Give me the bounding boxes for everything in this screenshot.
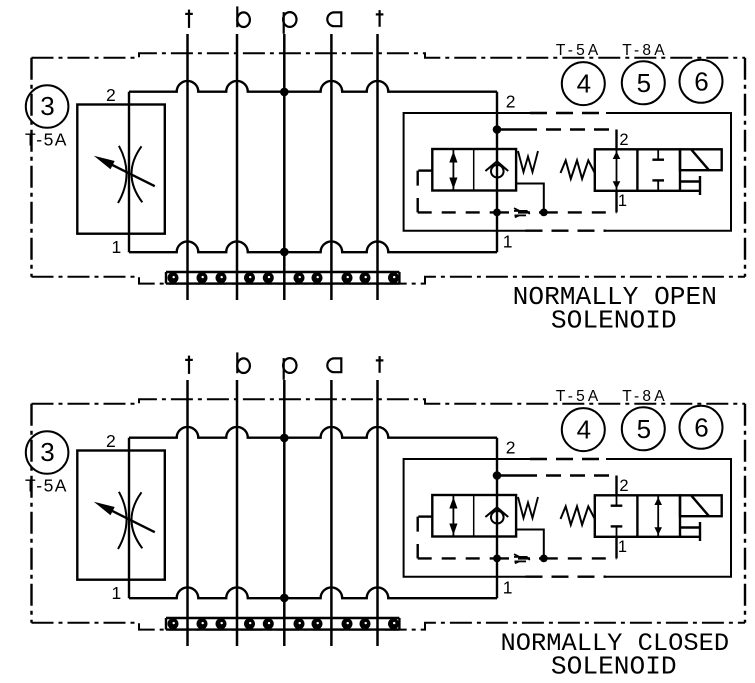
node: pilot junction lower — [493, 209, 501, 217]
cartridge assembly outline dashed bottom link — [526, 229, 607, 231]
manifold boundary chain border right edge — [744, 58, 746, 277]
bolt 8 — [342, 618, 353, 629]
flow control restriction arc left — [118, 492, 127, 549]
node: p port bottom junction — [280, 248, 289, 257]
check valve cartridge body — [432, 149, 516, 191]
balloon callout 3 — [26, 85, 69, 128]
bolt band top line — [166, 617, 399, 619]
flow control adjustment arrow — [109, 509, 155, 532]
bolt 1 — [168, 618, 179, 629]
wire: check valve drain connector — [516, 184, 544, 213]
svg-text:1: 1 — [112, 237, 122, 257]
wire: port line p3 — [283, 380, 286, 646]
wire: solenoid valve port 1 line — [615, 537, 617, 559]
wire: port line a4 — [330, 34, 333, 300]
node: p port bottom junction — [280, 594, 289, 603]
manifold body top edge with port notches — [129, 427, 497, 438]
port label t (second) — [376, 10, 384, 27]
svg-text:2: 2 — [619, 477, 628, 495]
bolt 3 — [216, 618, 227, 629]
solenoid connector stub — [680, 180, 700, 182]
check valve seat chevron — [485, 507, 508, 517]
wire: bottom pilot dashed middle section — [497, 557, 544, 559]
port label t (first) — [185, 10, 193, 28]
bolt 6 — [294, 618, 305, 629]
port label p — [283, 12, 296, 34]
bolt 2 — [197, 272, 208, 283]
wire: port line a4 — [330, 380, 333, 646]
bolt 1 — [168, 272, 179, 283]
solenoid valve cell divider — [636, 495, 638, 537]
bolt 10 — [388, 272, 399, 283]
bottom diagram: normally closed solenoid circuit — [25, 352, 745, 681]
solenoid valve cell divider — [636, 149, 638, 191]
flow control restriction arc right — [131, 492, 142, 548]
manifold boundary chain border top edge — [32, 53, 746, 58]
wire: port line p3 — [283, 34, 286, 300]
check valve free-flow arrow — [449, 149, 457, 191]
node: pilot junction lower — [493, 555, 501, 563]
manifold boundary chain border bottom edge — [32, 277, 746, 284]
manifold body bottom edge with port notches — [129, 587, 497, 598]
svg-text:4: 4 — [577, 69, 591, 99]
balloon callout 5 — [622, 61, 665, 104]
solenoid connector stub — [680, 526, 700, 528]
cartridge assembly outline left solid section — [404, 459, 530, 577]
solenoid valve open position arrows (left cell) — [613, 149, 621, 191]
svg-text:6: 6 — [694, 412, 708, 442]
svg-text:4: 4 — [577, 415, 591, 445]
wire: bottom pilot dashed left section — [418, 211, 497, 213]
wire: check valve drain connector — [516, 530, 544, 559]
wire: bottom pilot dashed middle section — [497, 211, 544, 213]
wire: bottom pilot dashed left section — [418, 557, 497, 559]
bolt 7 — [312, 272, 323, 283]
cartridge assembly outline right solid section — [606, 459, 731, 577]
bolt band right cap — [398, 618, 400, 630]
balloon callout 6 — [680, 60, 723, 103]
solenoid valve open position arrows (right cell) — [654, 495, 662, 537]
bolt 7 — [312, 618, 323, 629]
bolt 9 — [360, 618, 371, 629]
bolt 4 — [244, 272, 255, 283]
wire: solenoid valve port 2 line — [615, 130, 617, 150]
cartridge assembly outline dashed bottom link — [526, 576, 607, 578]
solenoid valve bottom edge extension — [680, 190, 700, 192]
orifice / restriction symbol — [514, 554, 530, 563]
wire: port line b2 — [236, 34, 239, 300]
node: drain junction — [540, 555, 548, 563]
manifold body left edge / flow control stem — [128, 438, 130, 599]
solenoid coil box — [680, 149, 722, 170]
node: p port top junction — [280, 88, 289, 97]
manifold body right edge / cartridge port line 2-1 — [496, 92, 498, 253]
bolt 4 — [244, 618, 255, 629]
svg-text:1: 1 — [112, 583, 122, 603]
port label t (first) — [185, 356, 193, 374]
cartridge assembly outline dashed top link — [530, 112, 606, 114]
manifold body bottom edge with port notches — [129, 241, 497, 252]
bolt 5 — [263, 272, 274, 283]
bolt band left cap — [165, 618, 167, 630]
check valve cartridge body — [432, 495, 516, 537]
check valve cell divider — [473, 149, 475, 191]
wire: bottom pilot dashed right section — [544, 211, 617, 213]
svg-text:5: 5 — [637, 68, 651, 98]
solenoid valve blocked position (right cell) — [652, 149, 664, 191]
check valve ball — [491, 511, 504, 524]
wire: pilot line upper dashed to solenoid valve — [522, 128, 617, 130]
bolt band right cap — [398, 272, 400, 284]
wire: port line t5 — [376, 34, 379, 300]
flow control restriction arc left — [118, 146, 127, 203]
manifold boundary chain border bottom edge — [32, 623, 746, 630]
svg-text:T-5A: T-5A — [556, 388, 602, 405]
cartridge assembly outline left solid section — [404, 113, 530, 231]
bolt band top line — [166, 271, 399, 273]
wire: pilot line upper solid stub — [497, 474, 522, 476]
wire: port line b2 — [236, 380, 239, 646]
port label b — [237, 6, 250, 27]
wire: pilot line upper solid stub — [497, 128, 522, 130]
bolt 3 — [216, 272, 227, 283]
solenoid valve bottom edge extension — [680, 536, 700, 538]
wire: port line t1 — [186, 34, 189, 300]
svg-text:T-5A: T-5A — [25, 476, 68, 496]
bolt band bottom line — [166, 282, 399, 284]
svg-text:2: 2 — [619, 131, 628, 149]
bolt 5 — [263, 618, 274, 629]
manifold body left edge / flow control stem — [128, 92, 130, 253]
wire: port line t1 — [186, 380, 189, 646]
solenoid valve return spring — [561, 160, 595, 178]
flow control restriction arc right — [131, 146, 142, 202]
wire: check valve left pilot vertical — [417, 171, 419, 213]
port label t (second) — [376, 356, 384, 373]
svg-text:T-5A: T-5A — [556, 42, 602, 59]
svg-text:T-8A: T-8A — [622, 388, 668, 405]
check valve ball — [491, 165, 504, 178]
solenoid valve SV body — [595, 149, 680, 191]
check valve cell divider — [473, 495, 475, 537]
node: p port top junction — [280, 434, 289, 443]
check valve free-flow arrow — [449, 495, 457, 537]
wire: pilot line upper dashed to solenoid valve — [522, 474, 617, 476]
orifice / restriction symbol — [514, 208, 530, 217]
svg-text:6: 6 — [694, 66, 708, 96]
manifold boundary chain border left edge — [30, 404, 32, 623]
cartridge assembly outline dashed top link — [530, 458, 606, 460]
balloon callout 3 — [26, 431, 69, 474]
port label b — [237, 352, 250, 373]
check valve seat chevron — [485, 161, 508, 171]
port label p — [283, 358, 296, 380]
svg-text:1: 1 — [618, 192, 627, 210]
wire: check valve left pilot horizontal — [418, 169, 433, 171]
bolt 10 — [388, 618, 399, 629]
wire: bottom pilot dashed right section — [544, 557, 617, 559]
svg-text:1: 1 — [503, 578, 513, 598]
balloon callout 6 — [680, 406, 723, 449]
solenoid valve blocked position (left cell) — [611, 495, 623, 537]
port label a — [327, 358, 341, 372]
svg-text:T-8A: T-8A — [622, 42, 668, 59]
check valve spring W — [518, 151, 538, 172]
solenoid connector pin — [699, 176, 701, 195]
svg-text:1: 1 — [618, 538, 627, 556]
svg-text:1: 1 — [503, 232, 513, 252]
wire: solenoid valve port 1 line — [615, 191, 617, 213]
manifold boundary chain border top edge — [32, 399, 746, 404]
solenoid valve return spring — [561, 506, 595, 524]
solenoid valve SV body — [595, 495, 680, 537]
svg-text:3: 3 — [40, 437, 54, 467]
solenoid coil box — [680, 495, 722, 516]
svg-text:2: 2 — [506, 92, 516, 112]
svg-text:2: 2 — [106, 431, 116, 451]
node: pilot junction upper — [493, 125, 502, 134]
wire: check valve left pilot horizontal — [418, 515, 433, 517]
flow control adjustment arrow — [109, 163, 155, 186]
svg-text:2: 2 — [106, 85, 116, 105]
svg-text:5: 5 — [637, 414, 651, 444]
solenoid coil diagonal — [692, 496, 710, 516]
solenoid coil diagonal — [692, 150, 710, 170]
wire: port line t5 — [376, 380, 379, 646]
manifold boundary chain border right edge — [744, 404, 746, 623]
bolt 8 — [342, 272, 353, 283]
bolt 2 — [197, 618, 208, 629]
bolt band bottom line — [166, 628, 399, 630]
check valve spring W — [518, 497, 538, 518]
flow control valve FC body (T-5A cartridge) — [77, 451, 165, 580]
top diagram: normally open solenoid circuit — [25, 6, 745, 335]
port label a — [327, 12, 341, 26]
svg-text:2: 2 — [506, 438, 516, 458]
balloon callout 4 — [562, 62, 605, 105]
svg-text:3: 3 — [40, 91, 54, 121]
bolt 6 — [294, 272, 305, 283]
svg-text:SOLENOID: SOLENOID — [551, 306, 677, 336]
svg-text:SOLENOID: SOLENOID — [551, 652, 677, 682]
svg-text:T-5A: T-5A — [25, 130, 68, 150]
node: drain junction — [540, 209, 548, 217]
solenoid connector pin — [699, 522, 701, 541]
wire: check valve left pilot vertical — [417, 517, 419, 559]
bolt 9 — [360, 272, 371, 283]
balloon callout 5 — [622, 407, 665, 450]
wire: solenoid valve port 2 line — [615, 476, 617, 496]
node: pilot junction upper — [493, 471, 502, 480]
manifold boundary chain border left edge — [30, 58, 32, 277]
flow control valve FC body (T-5A cartridge) — [77, 105, 165, 234]
balloon callout 4 — [562, 408, 605, 451]
cartridge assembly outline right solid section — [606, 113, 731, 231]
manifold body top edge with port notches — [129, 81, 497, 92]
manifold body right edge / cartridge port line 2-1 — [496, 438, 498, 599]
bolt band left cap — [165, 272, 167, 284]
